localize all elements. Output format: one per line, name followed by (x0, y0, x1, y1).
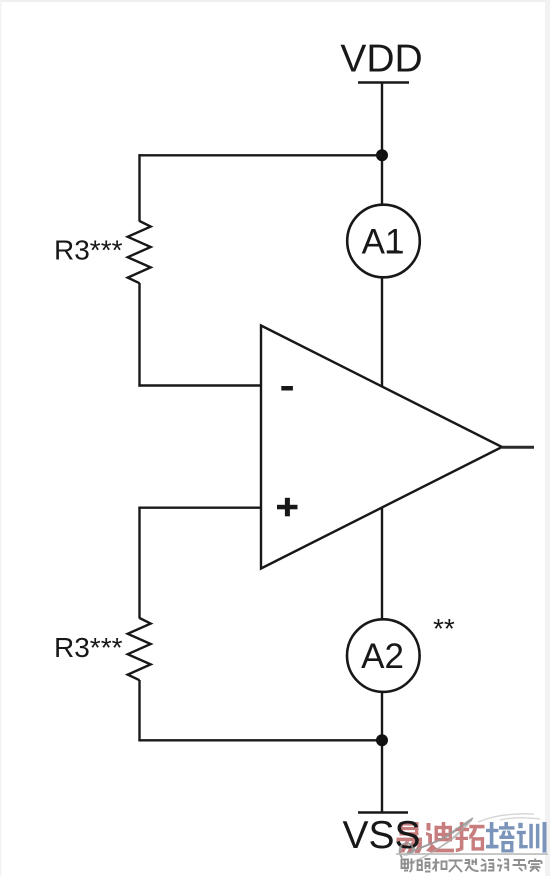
wire left vertical to R3 top (138, 154, 140, 221)
wire left vertical to R3 lower top (138, 507, 140, 619)
wire plus input horizontal (138, 507, 262, 509)
svg-text:R3***: R3*** (54, 632, 123, 663)
resistor R3 (upper) (128, 221, 151, 283)
wire A2 bottom to VSS rail (381, 692, 383, 813)
watermark signature strokes (400, 818, 473, 858)
plus input symbol (277, 505, 298, 510)
power rail VSS (358, 811, 408, 814)
svg-text:VSS: VSS (342, 814, 420, 857)
node junction top (376, 149, 388, 161)
power rail VDD (358, 81, 409, 84)
watermark char 训 (blue) (517, 822, 547, 853)
watermark char 培 (blue) (486, 822, 515, 853)
svg-text:A2: A2 (361, 637, 404, 676)
wire VDD rail to A1 top (381, 83, 383, 206)
ammeter A1 (347, 205, 420, 278)
wire A1 bottom to op-amp top edge (381, 277, 383, 386)
op-amp U1 (261, 326, 502, 569)
node junction bottom (376, 734, 388, 746)
watermark char 拓 (red) (456, 822, 485, 852)
watermark signature strokes (400, 820, 472, 858)
watermark subtitle 射频和天线设计专家 (gray) (402, 859, 542, 873)
wire R3 bottom to minus input (138, 283, 140, 387)
wire R3 lower bottom (138, 680, 140, 741)
svg-text:R3***: R3*** (54, 235, 123, 266)
watermark char 迪 (red) (426, 822, 454, 852)
minus input symbol (281, 386, 293, 391)
wire top horizontal (139, 154, 383, 156)
svg-text:A1: A1 (362, 223, 405, 262)
wire op-amp bottom edge to A2 top (381, 508, 383, 621)
watermark char 易 (red) (397, 822, 423, 853)
wire op-amp output (502, 446, 534, 449)
ammeter A2 (347, 619, 420, 692)
wire bottom horizontal (138, 739, 382, 741)
watermark underline (396, 853, 548, 855)
resistor R3 (lower) (128, 618, 151, 680)
svg-text:**: ** (433, 613, 455, 644)
wire minus input horizontal (138, 384, 262, 386)
svg-text:VDD: VDD (340, 38, 422, 81)
